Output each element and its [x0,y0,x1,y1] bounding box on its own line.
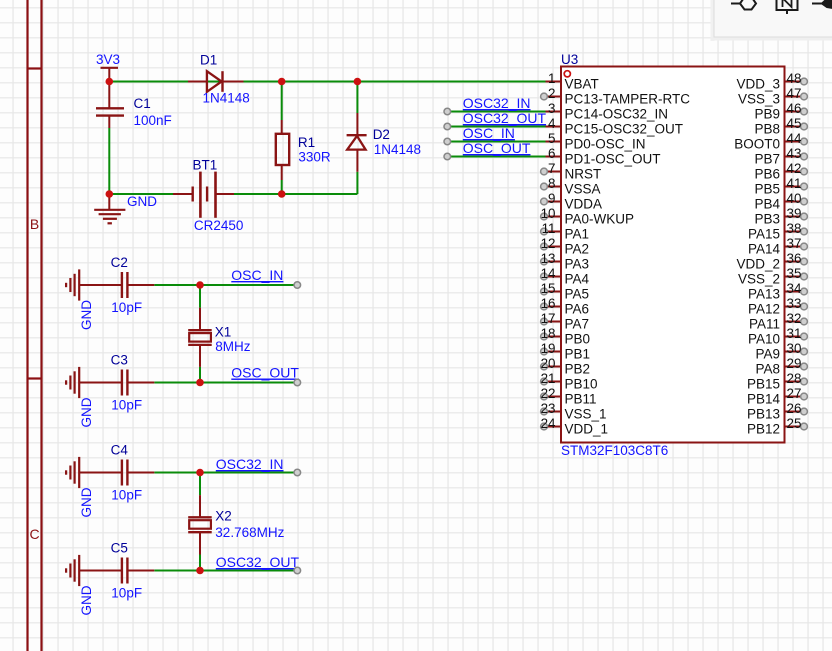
svg-text:PB10: PB10 [565,376,598,391]
svg-text:OSC32_IN: OSC32_IN [216,456,284,472]
svg-text:29: 29 [787,356,802,371]
svg-text:100nF: 100nF [134,113,172,128]
svg-text:3: 3 [548,101,555,116]
U3 pin1 origin marker [564,71,570,77]
svg-text:GND: GND [79,397,94,427]
svg-text:STM32F103C8T6: STM32F103C8T6 [561,443,668,458]
wire: X2 top lead [199,473,201,496]
svg-text:BT1: BT1 [193,158,218,173]
wire: net OSC32_OUT to U3 pin 4 [447,126,545,128]
svg-text:24: 24 [541,416,556,431]
svg-text:U3: U3 [561,52,578,67]
svg-text:PA11: PA11 [749,316,780,331]
svg-text:VDD_1: VDD_1 [565,421,609,436]
U3 pin 47 VSS_3 [738,86,807,106]
capacitor C3 [95,370,154,396]
svg-text:28: 28 [787,371,802,386]
U3 pin 41 PB5 [754,176,807,196]
svg-text:PA13: PA13 [748,286,780,301]
wire: 3V3 rail overlay into U3 pin 1 [480,81,546,83]
svg-text:23: 23 [541,401,556,416]
svg-text:45: 45 [787,116,802,131]
frame row tick B/C [28,377,42,379]
svg-text:32: 32 [787,311,802,326]
diode D1 [188,71,244,92]
wire: X1 bottom lead [199,367,201,383]
svg-text:10pF: 10pF [111,487,142,502]
capacitor C4 [95,460,154,486]
svg-text:27: 27 [787,386,802,401]
wire: R1 bottom branch [281,180,283,194]
wire: net OSC32_IN to U3 pin 3 [447,111,545,113]
svg-text:PB14: PB14 [747,391,781,406]
open wire end OSC_OUT [294,379,301,386]
svg-text:VDD_3: VDD_3 [736,76,780,91]
U3 pin 10 PA0-WKUP [541,206,634,226]
wire: D2 top branch [356,82,358,114]
open wire end OSC_IN (U3 side) [444,138,451,145]
wire: X1 top lead [199,285,201,308]
svg-text:1: 1 [548,71,555,86]
svg-text:5: 5 [548,131,555,146]
svg-text:C3: C3 [111,353,128,368]
svg-text:PA3: PA3 [565,256,590,271]
svg-text:VDDA: VDDA [565,196,603,211]
svg-text:17: 17 [541,311,556,326]
svg-text:PB11: PB11 [565,391,597,406]
svg-text:21: 21 [541,371,556,386]
U3 pin 37 PA14 [748,236,807,256]
svg-text:VSS_1: VSS_1 [565,406,607,421]
capacitor C2 [95,272,154,298]
svg-text:PA1: PA1 [565,226,590,241]
junction node OSC32_IN/X2 [196,469,204,477]
U3 pin 7 NRST [541,161,602,181]
svg-text:8MHz: 8MHz [215,339,251,354]
open wire end OSC32_IN [294,469,301,476]
svg-text:PA6: PA6 [565,301,590,316]
ground symbol (C3) [66,367,95,398]
svg-text:46: 46 [787,101,802,116]
svg-text:OSC32_IN: OSC32_IN [463,95,531,111]
svg-text:38: 38 [787,221,802,236]
svg-text:330R: 330R [298,150,331,165]
svg-text:NRST: NRST [565,166,602,181]
svg-text:PA4: PA4 [565,271,590,286]
U3 pin 39 PB3 [754,206,807,226]
open wire end OSC32_OUT (U3 side) [444,123,451,130]
U3 pin 29 PA8 [755,356,807,376]
svg-text:OSC32_OUT: OSC32_OUT [463,110,547,126]
wire: 3V3 top rail from C1 node to U3 pin 1 [109,81,542,83]
svg-text:PB12: PB12 [747,421,780,436]
svg-text:VSSA: VSSA [565,181,601,196]
svg-text:11: 11 [542,221,556,236]
junction node D2 top [354,78,362,86]
svg-text:PB0: PB0 [565,331,591,346]
svg-text:PC14-OSC32_IN: PC14-OSC32_IN [565,106,669,121]
capacitor C1 [96,82,124,129]
svg-text:PB2: PB2 [565,361,591,376]
svg-text:39: 39 [787,206,802,221]
svg-text:PB13: PB13 [747,406,780,421]
U3 pin 23 VSS_1 [541,401,607,421]
U3 pin 15 PA5 [541,281,589,301]
toolbar panel [711,0,832,41]
U3 pin 25 PB12 [747,416,807,436]
U3 pin 31 PA10 [748,326,807,346]
U3 pin 21 PB10 [541,371,598,391]
frame row tick A/B [28,67,42,69]
U3 pin 27 PB14 [747,386,807,406]
svg-text:41: 41 [787,176,802,191]
junction node OSC_IN/X1 [196,281,204,289]
svg-text:25: 25 [787,416,802,431]
svg-text:D2: D2 [373,127,390,142]
svg-text:20: 20 [541,356,556,371]
svg-text:PB15: PB15 [747,376,780,391]
wire: OSC_IN net row [154,284,297,286]
U3 pin 45 PB8 [754,116,807,136]
power flag 3V3 [101,68,119,82]
U3 pin 30 PA9 [755,341,807,361]
svg-text:36: 36 [787,251,802,266]
ground symbol (C5) [66,555,95,586]
svg-text:14: 14 [541,266,556,281]
ground symbol (C2) [66,269,95,300]
U3 pin 13 PA3 [541,251,589,271]
svg-text:10pF: 10pF [111,585,142,600]
wire: OSC32_IN net row [154,472,297,474]
U3 pin 26 PB13 [747,401,807,421]
wire: OSC_OUT net row [154,382,297,384]
svg-text:GND: GND [79,585,94,615]
svg-text:GND: GND [79,300,94,330]
svg-text:10: 10 [541,206,556,221]
svg-text:PA0-WKUP: PA0-WKUP [565,211,635,226]
U3 pin 9 VDDA [541,191,602,211]
svg-text:34: 34 [787,281,802,296]
U3 pin 40 PB4 [754,191,807,211]
U3 pin 19 PB1 [541,341,590,361]
resistor R1 [276,120,289,180]
wire: D2 bottom branch [356,172,358,194]
svg-text:X1: X1 [215,325,232,340]
svg-text:PA7: PA7 [565,316,590,331]
svg-text:35: 35 [787,266,802,281]
svg-text:PB6: PB6 [754,166,780,181]
wire: X2 bottom lead [199,555,201,571]
wire: vertical C1 to GND segment [108,128,110,194]
svg-text:C: C [29,526,39,542]
U3 pin 28 PB15 [747,371,807,391]
svg-text:12: 12 [541,236,556,251]
open wire end OSC_OUT (U3 side) [444,153,451,160]
svg-text:3V3: 3V3 [96,52,120,67]
svg-text:18: 18 [541,326,556,341]
svg-text:PA2: PA2 [565,241,590,256]
svg-text:PA10: PA10 [748,331,780,346]
U3 pin 3 PC14-OSC32_IN [542,101,669,121]
diode D2 [347,113,367,172]
svg-text:22: 22 [541,386,556,401]
svg-text:10pF: 10pF [111,397,142,412]
svg-text:X2: X2 [215,509,232,524]
svg-text:13: 13 [541,251,556,266]
junction node OSC32_OUT/X2 [196,567,204,575]
wire: R1 top branch [281,82,283,121]
svg-text:32.768MHz: 32.768MHz [215,525,284,540]
svg-text:6: 6 [548,146,555,161]
U3 pin 6 PD1-OSC_OUT [542,146,661,166]
svg-text:44: 44 [787,131,802,146]
svg-text:7: 7 [548,161,555,176]
wire: OSC32_OUT net row [154,570,297,572]
sheet frame outer border line [40,0,42,651]
open wire end OSC_IN [294,282,301,289]
open wire end OSC32_OUT [294,567,301,574]
svg-text:42: 42 [787,161,802,176]
toolbar icon: probe flag (clipped) [812,0,832,8]
U3 pin 20 PB2 [541,356,590,376]
U3 pin 35 VSS_2 [738,266,807,286]
U3 pin 44 BOOT0 [734,131,807,151]
svg-text:PD1-OSC_OUT: PD1-OSC_OUT [565,151,661,166]
svg-text:PB8: PB8 [754,121,780,136]
battery BT1 [173,172,234,218]
svg-text:9: 9 [548,191,555,206]
junction node 3V3/C1 [106,78,114,86]
svg-text:PB9: PB9 [754,106,780,121]
crystal X1 [188,308,212,367]
junction node GND/C1 [106,190,114,198]
U3 pin 14 PA4 [541,266,590,286]
svg-text:VBAT: VBAT [565,76,599,91]
U3 pin 2 PC13-TAMPER-RTC [541,86,691,106]
ground symbol (C4) [66,457,95,488]
U3 pin 17 PA7 [541,311,589,331]
svg-text:37: 37 [787,236,802,251]
svg-text:OSC32_OUT: OSC32_OUT [216,554,300,570]
U3 pin 5 PD0-OSC_IN [542,131,646,151]
svg-text:R1: R1 [298,135,315,150]
wire: net OSC_IN to U3 pin 5 [447,141,545,143]
svg-text:1N4148: 1N4148 [374,142,421,157]
svg-text:PD0-OSC_IN: PD0-OSC_IN [565,136,646,151]
U3 pin 24 VDD_1 [541,416,608,436]
toolbar icon: net label N-box [777,0,798,14]
U3 pin 32 PA11 [749,311,807,331]
U3 pin 48 VDD_3 [736,71,807,91]
svg-text:PA9: PA9 [755,346,780,361]
svg-text:PC13-TAMPER-RTC: PC13-TAMPER-RTC [565,91,691,106]
svg-text:PA14: PA14 [748,241,781,256]
svg-text:OSC_OUT: OSC_OUT [231,365,299,381]
toolbar icon: net port (hexagon) [731,0,756,10]
U3 pin 42 PB6 [754,161,807,181]
svg-text:PA15: PA15 [748,226,780,241]
wire: net OSC_OUT to U3 pin 6 [447,156,545,158]
svg-text:10pF: 10pF [111,300,142,315]
svg-text:C4: C4 [111,443,129,458]
sheet frame inner border line [26,0,28,651]
open wire end OSC32_IN (U3 side) [444,108,451,115]
svg-text:PA5: PA5 [565,286,590,301]
U3 pin 33 PA12 [748,296,807,316]
U3 pin 4 PC15-OSC32_OUT [542,116,684,136]
svg-text:C2: C2 [111,255,128,270]
svg-text:CR2450: CR2450 [194,218,244,233]
svg-text:PA12: PA12 [748,301,780,316]
svg-text:4: 4 [548,116,556,131]
U3 pin 16 PA6 [541,296,589,316]
svg-text:PB4: PB4 [754,196,780,211]
svg-text:26: 26 [787,401,802,416]
U3 pin 11 PA1 [541,221,589,241]
svg-text:47: 47 [787,86,802,101]
svg-text:VDD_2: VDD_2 [736,256,780,271]
svg-text:2: 2 [548,86,555,101]
svg-text:PC15-OSC32_OUT: PC15-OSC32_OUT [565,121,684,136]
U3 pin 46 PB9 [754,101,807,121]
svg-text:PB3: PB3 [754,211,780,226]
svg-text:8: 8 [548,176,555,191]
U3 pin 1 VBAT [542,71,599,91]
svg-text:40: 40 [787,191,802,206]
svg-text:43: 43 [787,146,802,161]
svg-text:33: 33 [787,296,802,311]
U3 pin 43 PB7 [754,146,807,166]
svg-text:PB1: PB1 [565,346,591,361]
wire: bottom GND rail from GND node to battery [109,193,173,195]
crystal X2 [188,495,212,554]
wire: bottom GND rail battery to D2 branch [234,193,357,195]
op-amp/IC U3 body [561,67,785,443]
svg-text:GND: GND [79,487,94,517]
svg-text:OSC_IN: OSC_IN [231,267,283,283]
junction node OSC_OUT/X1 [196,379,204,387]
svg-text:VSS_2: VSS_2 [738,271,780,286]
U3 pin 22 PB11 [541,386,597,406]
ground symbol GND (top section) [94,194,125,223]
junction node R1 top [278,78,286,86]
svg-text:PA8: PA8 [755,361,780,376]
svg-text:1N4148: 1N4148 [203,90,250,105]
svg-text:BOOT0: BOOT0 [734,136,780,151]
svg-text:48: 48 [787,71,802,86]
svg-text:C5: C5 [111,541,128,556]
svg-text:OSC_IN: OSC_IN [463,125,515,141]
svg-text:B: B [30,216,39,232]
junction node R1 bottom [278,190,286,198]
svg-text:30: 30 [787,341,802,356]
svg-text:16: 16 [541,296,556,311]
svg-text:19: 19 [541,341,556,356]
U3 pin 34 PA13 [748,281,807,301]
svg-text:15: 15 [541,281,556,296]
U3 pin 36 VDD_2 [736,251,807,271]
U3 pin 18 PB0 [541,326,590,346]
U3 pin 38 PA15 [748,221,807,241]
svg-text:PB7: PB7 [754,151,780,166]
U3 pin 12 PA2 [541,236,589,256]
U3 pin 8 VSSA [541,176,601,196]
svg-text:GND: GND [127,194,157,209]
svg-text:PB5: PB5 [754,181,780,196]
capacitor C5 [95,558,154,584]
svg-text:D1: D1 [200,52,217,67]
svg-text:OSC_OUT: OSC_OUT [463,140,531,156]
svg-text:VSS_3: VSS_3 [738,91,780,106]
svg-text:C1: C1 [134,96,151,111]
svg-text:31: 31 [787,326,802,341]
